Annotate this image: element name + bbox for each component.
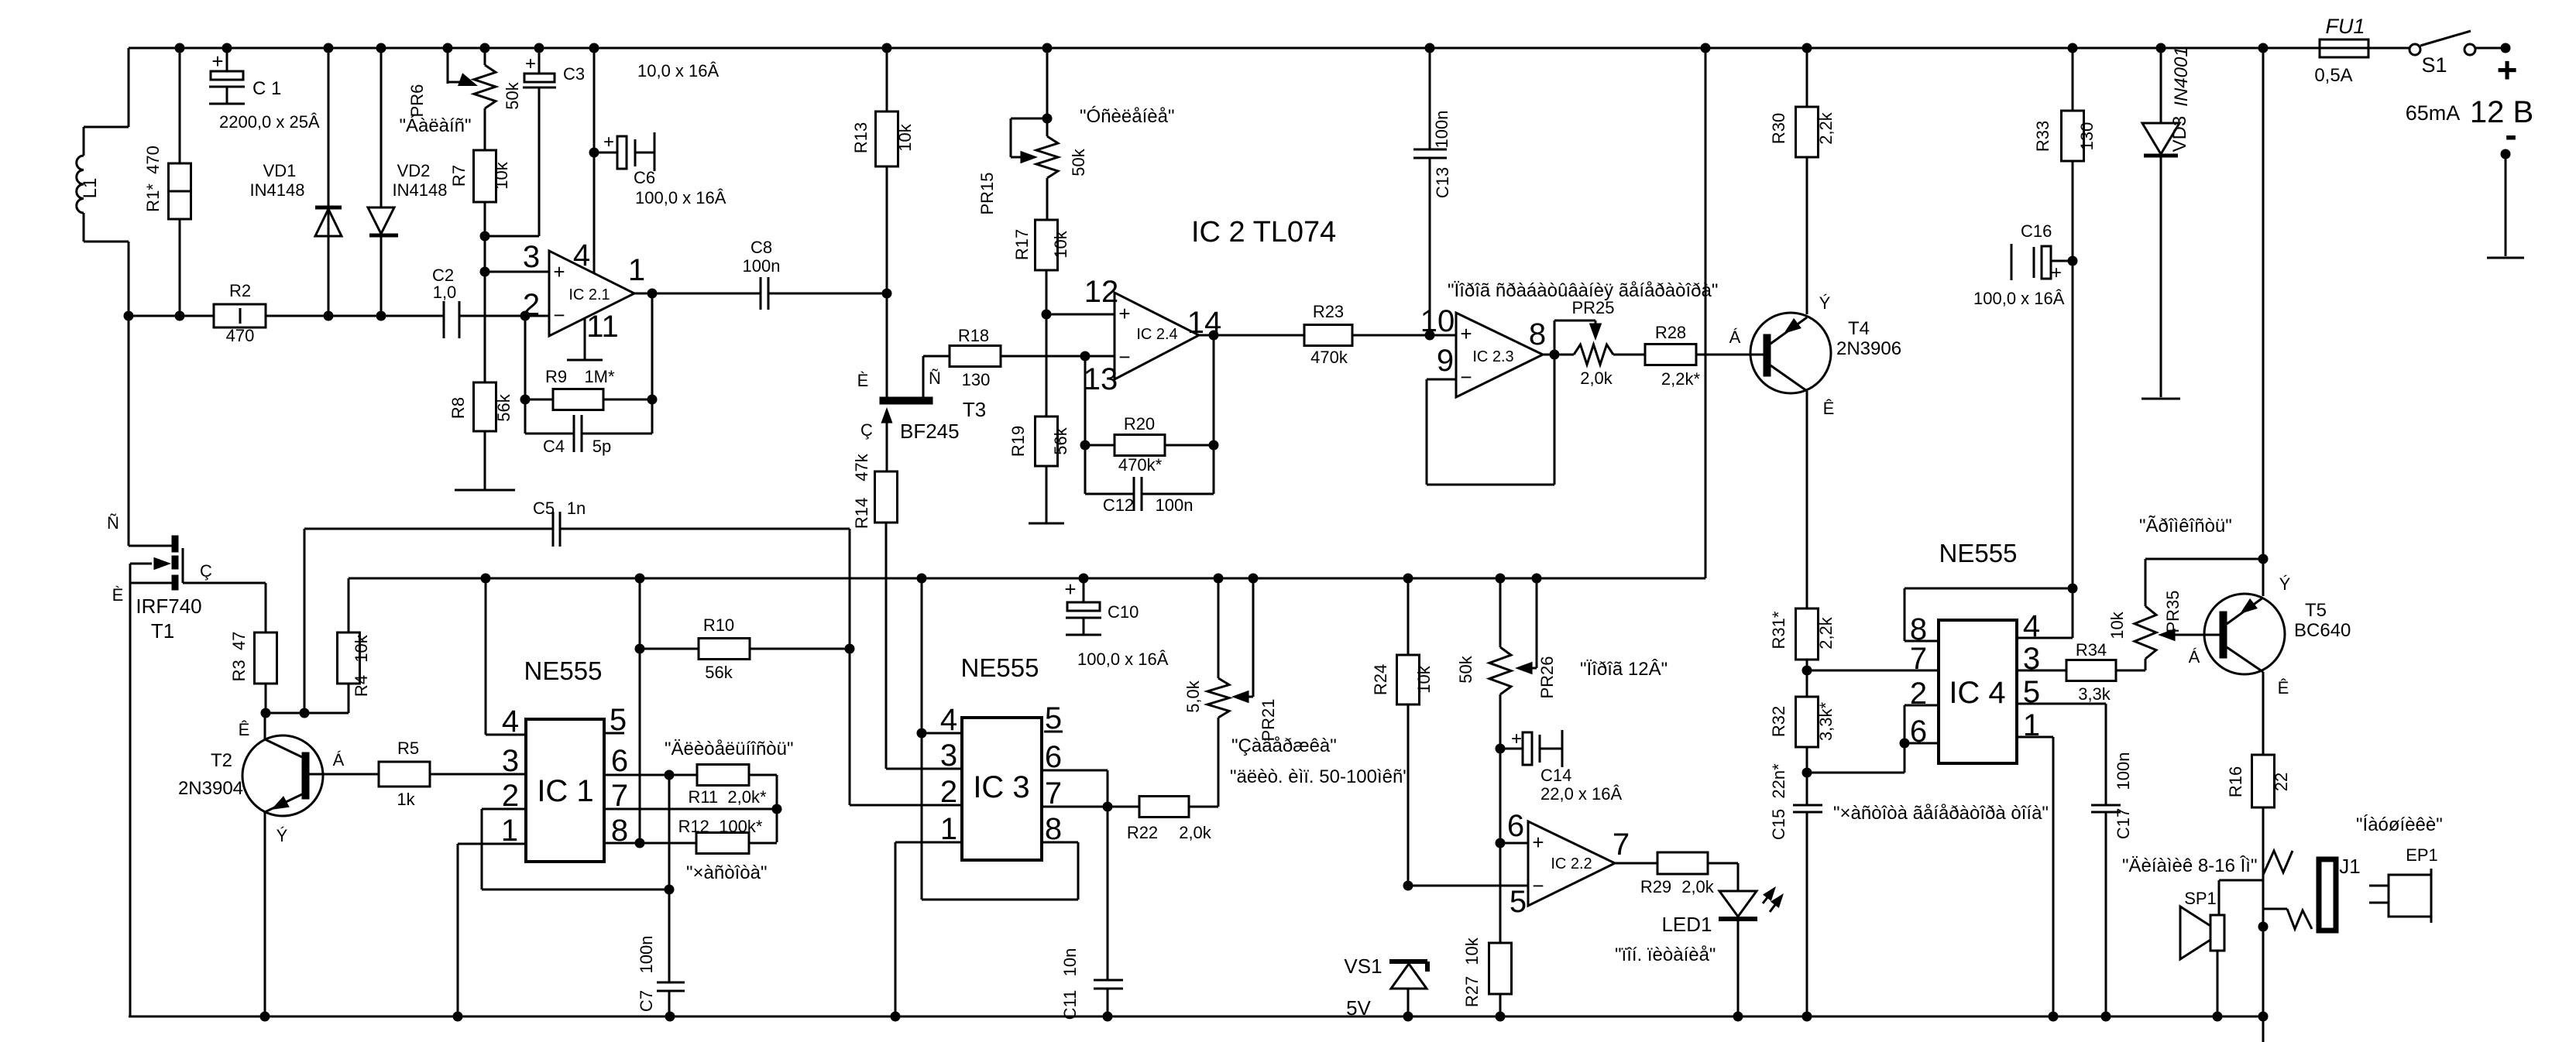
svg-text:R18: R18 — [958, 326, 989, 345]
resistor R24 — [1371, 578, 1434, 891]
transistor T5 — [2189, 574, 2351, 755]
capacitor C5 — [304, 499, 850, 713]
svg-text:5: 5 — [610, 703, 627, 737]
svg-text:LED1: LED1 — [1661, 913, 1712, 936]
op-amp IC2.2 — [1507, 809, 1630, 919]
svg-text:3: 3 — [940, 739, 957, 773]
svg-text:2N3904: 2N3904 — [178, 778, 243, 799]
wire IC3 pin2 — [850, 804, 962, 807]
svg-text:100n: 100n — [2114, 752, 2133, 790]
connector J1 — [2319, 855, 2361, 931]
resistor R14 — [852, 453, 898, 769]
svg-text:C14: C14 — [1540, 766, 1571, 785]
svg-text:9: 9 — [1437, 344, 1454, 378]
wire L1 lower leg — [84, 213, 129, 546]
resistor R20 — [1085, 414, 1219, 475]
svg-text:"Ïîðîã 12Â": "Ïîðîã 12Â" — [1580, 659, 1668, 680]
svg-text:PR25: PR25 — [1571, 298, 1614, 317]
svg-text:5: 5 — [1510, 885, 1527, 919]
svg-text:IN4148: IN4148 — [393, 180, 448, 200]
svg-text:+: + — [525, 53, 536, 74]
svg-text:R31*: R31* — [1769, 611, 1788, 649]
svg-text:5p: 5p — [592, 437, 611, 456]
svg-text:IC 1: IC 1 — [537, 774, 593, 808]
capacitor C2 — [432, 266, 459, 338]
svg-text:10,0 x 16Â: 10,0 x 16Â — [637, 61, 720, 81]
svg-text:VS1: VS1 — [1344, 955, 1382, 978]
capacitor C11 — [1060, 807, 1123, 1020]
svg-text:R23: R23 — [1313, 302, 1344, 321]
svg-text:1: 1 — [501, 814, 518, 848]
svg-text:−: − — [1532, 874, 1544, 897]
trimmer PR35 — [2107, 559, 2263, 670]
wire V+ top rail — [129, 47, 2506, 50]
svg-text:6: 6 — [1507, 809, 1524, 843]
svg-text:NE555: NE555 — [524, 656, 603, 685]
resistor R30 — [1769, 48, 1836, 314]
node signal line left — [124, 311, 134, 321]
svg-text:−: − — [553, 303, 565, 327]
wire R9 right — [603, 293, 658, 434]
svg-text:IC 3: IC 3 — [973, 770, 1029, 804]
svg-text:FU1: FU1 — [2325, 15, 2365, 38]
svg-text:56k: 56k — [1051, 427, 1070, 454]
svg-text:65mA: 65mA — [2406, 101, 2461, 125]
svg-text:R9: R9 — [545, 367, 567, 386]
ic IC3 NE555 — [940, 653, 1063, 860]
capacitor C1 — [209, 48, 320, 132]
svg-text:50k: 50k — [1069, 148, 1088, 176]
svg-text:Á: Á — [1729, 327, 1741, 347]
svg-text:Ñ: Ñ — [929, 368, 941, 388]
svg-text:IC 2.1: IC 2.1 — [568, 286, 610, 303]
wire IC1 pin2 loop — [482, 809, 675, 895]
wire IC3 pin6 pin7 — [1042, 770, 1139, 812]
svg-text:3,3k: 3,3k — [2078, 684, 2111, 704]
capacitor C12 — [1085, 445, 1214, 515]
resistor R28 — [1645, 323, 1764, 389]
svg-text:IC 2.2: IC 2.2 — [1551, 855, 1592, 872]
svg-text:470k*: 470k* — [1118, 455, 1163, 475]
led LED1 — [1661, 886, 1784, 1016]
ground battery minus — [2487, 257, 2524, 259]
wire Vplus drop x2202 — [1705, 48, 1707, 578]
svg-text:3,3k*: 3,3k* — [1816, 701, 1836, 741]
resistor R4 — [338, 578, 372, 713]
svg-text:50k: 50k — [1456, 655, 1475, 683]
wire IC2.1 pin4 — [593, 48, 596, 273]
capacitor C15 — [1769, 763, 1822, 1016]
svg-text:R5: R5 — [397, 739, 419, 758]
svg-text:"äëèò. èìï. 50-100ìêñ": "äëèò. èìï. 50-100ìêñ" — [1230, 766, 1410, 787]
svg-text:"Äèíàìèê 8-16 Îì": "Äèíàìèê 8-16 Îì" — [2122, 855, 2257, 876]
svg-text:È: È — [112, 585, 124, 605]
svg-text:R30: R30 — [1769, 113, 1788, 144]
svg-text:R32: R32 — [1769, 706, 1788, 737]
diode VD1 — [250, 48, 342, 316]
svg-text:Ê: Ê — [1823, 399, 1835, 418]
svg-text:IN4148: IN4148 — [250, 180, 305, 200]
svg-text:R34: R34 — [2076, 640, 2107, 660]
resistor R19 — [1008, 416, 1070, 523]
svg-text:R3 47: R3 47 — [229, 632, 249, 682]
svg-text:NE555: NE555 — [1939, 539, 2018, 567]
svg-text:+: + — [1064, 578, 1076, 601]
svg-text:PR35: PR35 — [2163, 590, 2183, 632]
speaker SP1 — [2180, 889, 2224, 1016]
wire C5 right drop — [845, 529, 963, 805]
capacitor C3 — [523, 48, 585, 236]
svg-text:22,0 x 16Â: 22,0 x 16Â — [1540, 784, 1623, 804]
battery 12V — [2406, 50, 2533, 256]
svg-text:7: 7 — [1613, 828, 1630, 862]
zener VS1 — [1344, 955, 1427, 1020]
trimmer PR26 — [1456, 578, 1557, 749]
svg-text:2,2k: 2,2k — [1816, 616, 1836, 650]
resistor R22 — [1127, 797, 1218, 843]
svg-text:+: + — [1532, 831, 1544, 854]
svg-text:IC 2.3: IC 2.3 — [1472, 348, 1513, 365]
svg-text:10n: 10n — [1060, 948, 1080, 977]
svg-text:C4: C4 — [543, 437, 565, 456]
svg-text:+: + — [1118, 302, 1130, 325]
svg-text:1k: 1k — [397, 790, 415, 809]
transistor T4 — [1729, 293, 1901, 608]
svg-text:R1* 470: R1* 470 — [143, 146, 163, 212]
wire IC2.4 pin12 — [1046, 314, 1115, 316]
svg-text:C8: C8 — [750, 238, 772, 257]
svg-text:1: 1 — [628, 253, 645, 287]
svg-text:22n*: 22n* — [1769, 763, 1788, 799]
svg-text:1n: 1n — [567, 499, 586, 518]
svg-text:4: 4 — [573, 238, 590, 272]
svg-text:12 B: 12 B — [2470, 95, 2533, 129]
svg-text:10k: 10k — [1051, 230, 1070, 258]
svg-text:C3: C3 — [563, 64, 585, 84]
svg-text:"Íàóøíèêè": "Íàóøíèêè" — [2356, 814, 2443, 835]
resistor R9 — [545, 367, 615, 410]
op-amp IC2.3 — [1420, 304, 1546, 397]
svg-text:Ç: Ç — [860, 420, 873, 440]
svg-text:C10: C10 — [1108, 602, 1139, 622]
svg-text:12: 12 — [1084, 275, 1119, 309]
svg-text:2,0k: 2,0k — [1681, 877, 1715, 896]
capacitor C6 — [594, 132, 726, 207]
svg-text:C7: C7 — [637, 990, 656, 1012]
svg-text:C 1: C 1 — [252, 78, 281, 99]
wire signal net y408 — [129, 315, 549, 317]
svg-text:C13: C13 — [1433, 167, 1452, 198]
resistor R31 — [1769, 608, 1836, 676]
wire pin6 net — [1496, 749, 1529, 943]
svg-text:2,2k: 2,2k — [1816, 111, 1836, 145]
resistor R5 — [379, 739, 526, 809]
svg-text:"×àñòîòà ãåíåðàòîðà òîíà": "×àñòîòà ãåíåðàòîðà òîíà" — [1833, 803, 2049, 824]
capacitor C14 — [1496, 728, 1623, 804]
svg-text:100n: 100n — [1432, 111, 1451, 149]
svg-text:R12 100k*: R12 100k* — [678, 817, 763, 836]
svg-text:130: 130 — [2077, 122, 2097, 151]
capacitor C7 — [637, 775, 685, 1016]
svg-text:VD1: VD1 — [263, 161, 297, 180]
wire IC4 pin8 pin4 — [1905, 584, 2078, 642]
svg-text:C17: C17 — [2114, 808, 2133, 839]
svg-text:−: − — [1460, 365, 1472, 389]
wire pin2 to feedback — [520, 316, 554, 434]
svg-text:100n: 100n — [637, 936, 656, 974]
svg-text:10: 10 — [1420, 304, 1455, 338]
capacitor C16 — [1973, 221, 2073, 308]
svg-text:È: È — [857, 371, 869, 390]
svg-text:10k: 10k — [895, 123, 915, 151]
svg-text:7: 7 — [1045, 776, 1062, 811]
svg-text:10k: 10k — [2107, 611, 2127, 639]
connector EP1 — [2369, 845, 2438, 923]
svg-text:"Ãðîìêîñòü": "Ãðîìêîñòü" — [2139, 516, 2232, 536]
svg-text:R20: R20 — [1124, 414, 1155, 434]
svg-text:6: 6 — [611, 744, 628, 778]
ground under R19 — [1029, 523, 1064, 525]
resistor R16 — [2226, 755, 2291, 880]
trimmer PR15 — [977, 48, 1088, 220]
svg-text:IRF740: IRF740 — [136, 595, 201, 618]
svg-text:R11 2,0k*: R11 2,0k* — [688, 787, 767, 807]
wire IC2.4 output — [1199, 331, 1304, 446]
switch S1 — [2409, 31, 2475, 77]
resistor R23 — [1304, 302, 1456, 367]
fuse FU1 — [2314, 15, 2368, 86]
wire to speaker — [2219, 880, 2263, 915]
svg-text:2,0k: 2,0k — [1179, 823, 1212, 842]
wire IC1 pin6 net — [604, 770, 697, 780]
ground IC2.1 pin11 — [567, 359, 603, 362]
svg-text:T2: T2 — [211, 750, 232, 771]
trimmer PR21 — [1183, 578, 1278, 807]
wire IC2.1 output — [634, 289, 761, 299]
svg-text:R28: R28 — [1655, 323, 1686, 342]
svg-text:2: 2 — [940, 775, 957, 809]
svg-text:8: 8 — [1529, 317, 1546, 351]
svg-text:T1: T1 — [151, 619, 174, 643]
resistor R8 — [448, 382, 513, 490]
resistor R11 — [688, 765, 781, 843]
svg-text:R14: R14 — [852, 498, 871, 529]
wire mid rail y747 — [349, 578, 1705, 580]
ground under VD3 — [2142, 398, 2180, 400]
svg-text:10k: 10k — [352, 634, 371, 662]
svg-text:10k: 10k — [492, 161, 511, 189]
ic IC4 NE555 — [1910, 539, 2040, 763]
resistor R29 — [1640, 852, 1738, 896]
wire IC2.1 pin11 — [584, 318, 586, 360]
svg-text:100,0 x 16Â: 100,0 x 16Â — [1077, 650, 1169, 669]
resistor R2 — [214, 281, 266, 345]
svg-text:6: 6 — [1045, 740, 1062, 774]
trimmer PR6 — [407, 48, 522, 150]
junction dots mid rail — [481, 574, 1542, 584]
svg-text:22: 22 — [2272, 773, 2291, 791]
svg-text:R10: R10 — [703, 615, 734, 635]
svg-text:8: 8 — [1045, 812, 1062, 846]
svg-text:10k: 10k — [1462, 937, 1482, 965]
svg-text:Ê: Ê — [239, 720, 250, 739]
svg-text:R7: R7 — [449, 165, 469, 187]
svg-text:-: - — [2505, 115, 2516, 155]
junction C6 node — [589, 148, 599, 158]
svg-text:1,0: 1,0 — [433, 283, 457, 302]
svg-text:PR15: PR15 — [977, 172, 997, 214]
resistor R10 — [640, 615, 850, 682]
ground under R8 — [455, 489, 515, 492]
svg-text:R13: R13 — [851, 122, 871, 153]
resistor R34 — [2017, 640, 2116, 704]
op-amp IC2.1 — [523, 238, 645, 344]
svg-text:Ê: Ê — [2278, 678, 2289, 698]
wire IC1 pin7 — [604, 808, 777, 811]
wire IC4 pin1 — [2017, 737, 2053, 1016]
svg-text:R4: R4 — [352, 675, 371, 697]
wire IC4 pin2 pin6 — [1807, 705, 1939, 773]
svg-text:1M*: 1M* — [584, 367, 615, 386]
wire T5 emitter top — [2258, 48, 2269, 596]
capacitor C13 — [1413, 48, 1452, 341]
svg-text:4: 4 — [940, 703, 957, 737]
svg-text:5,0k: 5,0k — [1183, 680, 1203, 713]
capacitor C4 — [525, 415, 652, 456]
svg-text:100n: 100n — [743, 256, 781, 276]
wire IC2.3 output — [1543, 350, 1574, 360]
svg-text:R33: R33 — [2033, 121, 2052, 152]
wire pin3 net — [485, 271, 549, 273]
svg-text:VD2: VD2 — [397, 161, 431, 180]
svg-text:R16: R16 — [2226, 766, 2245, 797]
wire IC2.3 pin9 loop — [1427, 355, 1554, 485]
resistor R33 — [2033, 48, 2097, 588]
svg-text:56k: 56k — [705, 663, 733, 682]
capacitor C10 — [1064, 578, 1168, 669]
svg-text:Ý: Ý — [276, 826, 288, 845]
wire IC1 pin4 — [486, 578, 526, 735]
svg-text:"ïîí. ïèòàíèå": "ïîí. ïèòàíèå" — [1615, 944, 1716, 965]
svg-text:C15: C15 — [1769, 809, 1788, 840]
svg-text:R17: R17 — [1012, 229, 1032, 260]
svg-text:R22: R22 — [1127, 823, 1158, 842]
svg-text:3: 3 — [523, 240, 540, 274]
resistor R3 — [229, 583, 277, 713]
svg-text:"Äëèòåëüíîñòü": "Äëèòåëüíîñòü" — [665, 739, 794, 759]
svg-text:PR26: PR26 — [1537, 656, 1557, 698]
svg-text:J1: J1 — [2339, 855, 2360, 878]
svg-text:"Óñèëåíèå": "Óñèëåíèå" — [1080, 106, 1174, 127]
wire IC3 pin4 — [917, 578, 963, 900]
svg-text:S1: S1 — [2421, 53, 2447, 77]
svg-text:+: + — [211, 50, 223, 73]
wire IC3 pin3 — [886, 768, 962, 770]
ic IC1 NE555 — [501, 656, 628, 862]
wire pin5 net — [1408, 885, 1528, 887]
transistor T2 — [178, 713, 379, 1016]
svg-text:11: 11 — [586, 310, 619, 344]
svg-text:C5: C5 — [533, 499, 555, 518]
capacitor C17 — [2091, 752, 2133, 1016]
resistor R17 — [1012, 220, 1070, 416]
wire IC3 pin1 pin8 loop — [895, 842, 1078, 1016]
svg-text:PR6: PR6 — [407, 84, 427, 118]
svg-text:IN4001: IN4001 — [2171, 46, 2192, 106]
transistor T3 — [857, 293, 987, 471]
svg-text:C16: C16 — [2021, 221, 2052, 241]
svg-text:130: 130 — [962, 370, 991, 389]
svg-text:470k: 470k — [1310, 348, 1348, 367]
svg-text:50k: 50k — [503, 81, 522, 109]
svg-text:2N3906: 2N3906 — [1836, 338, 1901, 359]
svg-text:+: + — [2497, 50, 2518, 90]
svg-text:BC640: BC640 — [2294, 620, 2351, 641]
svg-text:T5: T5 — [2305, 600, 2327, 621]
svg-text:7: 7 — [611, 779, 628, 813]
svg-text:+: + — [553, 260, 565, 283]
svg-text:Á: Á — [333, 750, 345, 770]
svg-text:100,0 x 16Â: 100,0 x 16Â — [635, 188, 726, 207]
svg-text:R2: R2 — [229, 281, 251, 300]
junction dots bottom rail — [260, 1012, 2269, 1022]
svg-text:EP1: EP1 — [2406, 845, 2438, 865]
resistor R32 — [1769, 670, 1836, 778]
svg-text:−: − — [1118, 345, 1130, 368]
svg-text:Ñ: Ñ — [107, 513, 119, 533]
svg-text:+: + — [2051, 262, 2062, 283]
junction R7 bottom — [480, 231, 540, 383]
svg-text:10k: 10k — [1414, 665, 1434, 693]
svg-text:BF245: BF245 — [900, 420, 960, 443]
diode VD3 — [2142, 46, 2192, 397]
trimmer PR25 — [1554, 298, 1645, 388]
svg-text:Ý: Ý — [1819, 293, 1831, 313]
svg-text:"Áàëàíñ": "Áàëàíñ" — [399, 115, 471, 136]
svg-text:IC 2 TL074: IC 2 TL074 — [1191, 216, 1336, 249]
wire pin13 node — [1080, 356, 1091, 451]
svg-text:13: 13 — [1084, 362, 1118, 396]
resistor R18 — [950, 326, 1115, 389]
svg-text:IC 2.4: IC 2.4 — [1136, 326, 1177, 343]
junction dots signal net — [175, 311, 531, 321]
resistor R13 — [851, 48, 915, 299]
svg-text:470: 470 — [226, 326, 255, 345]
svg-text:L1: L1 — [80, 178, 101, 199]
svg-text:NE555: NE555 — [961, 653, 1039, 682]
svg-text:0,5A: 0,5A — [2314, 65, 2352, 86]
inductor L1 — [77, 156, 101, 213]
svg-text:"Çàäåðæêà": "Çàäåðæêà" — [1231, 735, 1337, 756]
wire IC4 pin7 — [1807, 670, 1939, 672]
svg-text:T3: T3 — [963, 398, 986, 421]
wire IC1 vcc drop x826 — [635, 578, 645, 848]
svg-text:2,2k*: 2,2k* — [1661, 369, 1701, 389]
svg-text:5: 5 — [1045, 701, 1062, 735]
svg-text:IC 4: IC 4 — [1949, 676, 2005, 710]
wire IC4 pin5 — [2017, 704, 2106, 805]
wire IC2.2 output — [1615, 862, 1657, 865]
svg-text:C12: C12 — [1103, 495, 1134, 515]
jack contact upper — [2263, 851, 2293, 875]
svg-text:47k: 47k — [852, 453, 871, 481]
wire T1 source down — [129, 564, 132, 1016]
svg-text:2: 2 — [502, 779, 519, 813]
svg-text:R27: R27 — [1462, 976, 1482, 1007]
svg-text:VD3: VD3 — [2169, 116, 2190, 153]
svg-text:R24: R24 — [1371, 664, 1390, 695]
resistor R7 — [449, 150, 511, 236]
